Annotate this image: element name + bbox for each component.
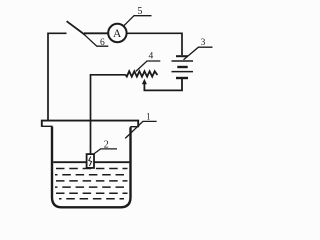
- battery 3 plate short bottom: [176, 77, 188, 79]
- rheostat 4 zigzag: [125, 71, 157, 76]
- svg-text:3: 3: [201, 38, 206, 48]
- electrode 2: [87, 154, 94, 168]
- battery 3 plate long: [172, 60, 194, 62]
- liquid hatch row 5: [56, 192, 128, 194]
- wire: left vertical + top-left horizontal to switch: [48, 33, 67, 121]
- svg-text:4: 4: [149, 52, 154, 62]
- label 1 leader: [125, 121, 156, 138]
- liquid hatch row 3: [56, 180, 128, 182]
- svg-text:1: 1: [146, 112, 151, 122]
- battery 3 plate long lower: [172, 71, 194, 73]
- wire: ammeter to battery top: [127, 33, 182, 55]
- liquid hatch row 1: [56, 168, 128, 170]
- lid 1 left underside rim: [42, 125, 53, 127]
- beaker (vessel walls and rounded bottom): [52, 127, 131, 208]
- wire: switch pivot to ammeter: [84, 32, 108, 34]
- label 2 leader: [94, 149, 117, 154]
- liquid hatch row 2: [55, 174, 128, 176]
- label 6 leader: [85, 35, 109, 46]
- svg-text:5: 5: [137, 6, 142, 17]
- electrode 2 inner mark: [89, 157, 92, 167]
- svg-text:A: A: [113, 28, 122, 40]
- battery 3 plate short top: [176, 55, 188, 57]
- lid 1 (cover plate): [42, 121, 138, 128]
- liquid hatch row 6: [59, 198, 124, 200]
- svg-text:2: 2: [104, 139, 109, 150]
- switch 6 (open blade): [67, 21, 85, 35]
- liquid hatch row 4: [55, 186, 128, 188]
- label 3 leader: [184, 47, 213, 60]
- label 5 leader: [124, 16, 152, 26]
- label 4 leader: [136, 61, 161, 71]
- rheostat wiper arrowhead: [142, 79, 147, 85]
- liquid surface: [53, 161, 129, 163]
- lid 1 right underside rim: [130, 126, 138, 128]
- wire: rheostat left end down to electrode: [91, 75, 126, 154]
- battery 3 plate short middle: [177, 66, 187, 68]
- svg-text:6: 6: [100, 38, 105, 48]
- wire: battery bottom to rheostat wiper: [144, 79, 182, 91]
- ammeter U1 (A): [108, 24, 126, 42]
